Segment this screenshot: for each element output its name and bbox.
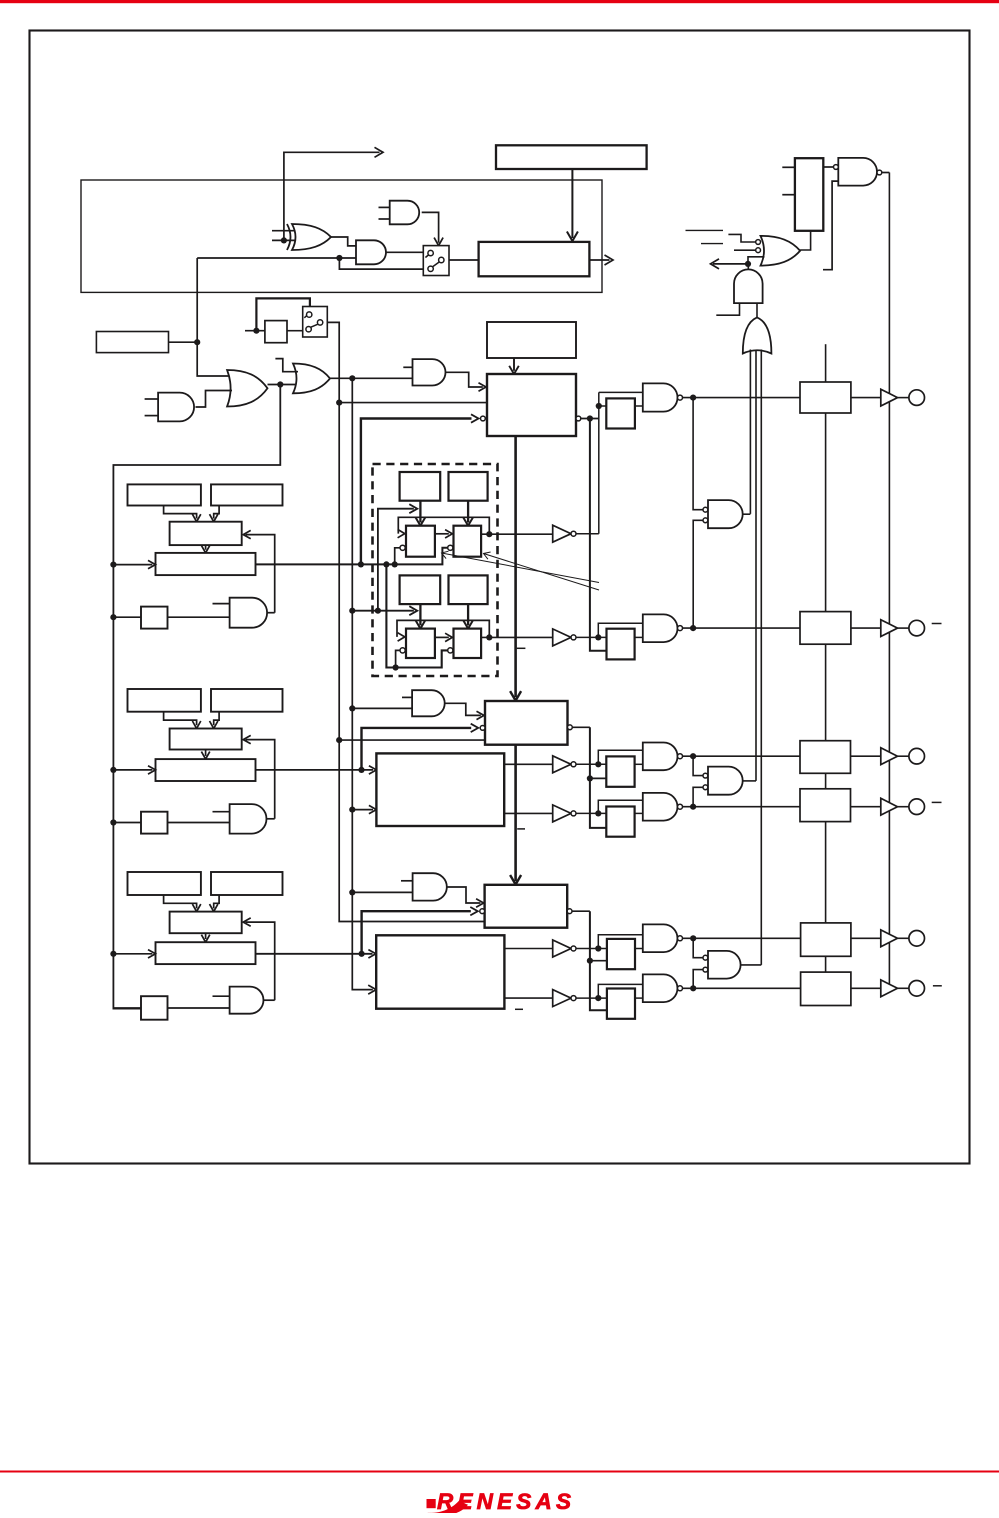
wire: left bus rail [113,385,280,1009]
wire: GA2 input stub [213,811,230,813]
nand gate G4 (top) [838,158,877,186]
wire: and gate up to C3 right input [246,922,275,1000]
nand gate GC3 (rows 5-6, inverted inputs) [708,951,741,979]
wire: flag rail from rows 5-6 [760,350,762,965]
nand gate N4 [643,793,678,821]
counter box T1 [487,374,576,436]
buffer B2 [881,620,898,637]
wire: V3 output [576,763,606,765]
wire: selector S1 output [449,259,479,261]
register box B2 [211,689,283,712]
wire: C3 to D3 [205,933,207,939]
output square R3 [606,756,634,786]
wire: mode register output [169,341,198,343]
wire: clock arrows into FF block [352,610,378,612]
and gate GA2 [230,804,267,834]
and gate GA1 [230,598,268,628]
node: net to square R1 [596,403,602,409]
wire: G9 output to G8 [196,391,233,408]
or gate G10 [293,364,330,394]
register box (top wide) [496,145,647,169]
wire: N3 output row3 [683,755,801,757]
wire: top feedback arrow [284,152,380,240]
wire: GA3 output [263,999,274,1001]
wire: tall box input stubs [782,166,795,168]
overbar tick near chain (1) [517,647,526,649]
wire: Q1 to and gate [168,616,230,618]
control register box (tall) [795,158,823,231]
wire: buffer into counter 1 [513,358,515,371]
wire: GR2 upper output [504,763,553,765]
register box B3 [211,872,283,895]
wire: R5 to N5 [635,948,643,950]
register box C1 [170,522,242,545]
inverter V1 [553,525,571,542]
and gate GB2 [412,690,445,716]
wire: FF1 to FF2 [435,533,449,535]
nand gate N6 [643,974,678,1002]
pin P5 [909,931,925,947]
wire: G9 input stubs [145,398,159,400]
output mode box M6 [801,972,851,1005]
wire: flag rail from rows 1-2 [749,350,751,514]
buffer B4 [881,798,898,815]
wire: rail B to GB3 [352,891,412,893]
bubble: FF1 reset [400,545,405,550]
compare-match box (top) [479,242,590,276]
wire: row1 net vertical [598,392,600,533]
output square R5 [607,939,635,969]
register box C2 [170,729,242,750]
wire: T3 rail down to R5/R6 [590,911,607,1010]
register box E2 [449,472,488,501]
wire: row4 net vertical [598,800,643,813]
wire: left rail into Q1 [113,616,141,618]
wire: N5 output row5 [683,937,801,939]
wire: G5 input 2 [734,249,756,251]
wire: E1 to FF1 [419,501,421,523]
wire: R4 to N4 [635,812,643,814]
wire: net to nand N1 input [599,391,643,393]
wire: and G2 output [386,251,423,253]
output square R2 [607,629,635,660]
inner top sub-block frame [81,180,602,292]
wire: E4 to FF4 [467,604,469,625]
wire: latch L2 input [245,330,265,332]
wire: Q3 to and gate [168,1007,230,1009]
register box A2 [128,689,201,712]
wire: row2 net vertical [598,623,643,637]
latch square Q3 [141,996,168,1020]
or gate G8 [227,370,267,407]
wire: D3 line into general register box [256,953,372,955]
nand gate GC2 (rows 3-4, inverted inputs) [708,767,743,795]
nand gate GC1 (rows 1-2, inverted inputs) [708,500,743,528]
node: clock vertical junction [375,608,381,614]
wire: rail B to GB2 [352,707,412,709]
wire: N4 elbow to GC2 [693,787,703,806]
wire: L2 square to selector [287,330,303,332]
wire: FF4 reset wrap to counter junction [386,564,447,667]
buffer B5 [881,930,898,947]
wire: M4 to buffer [851,806,881,808]
overbar tick near chain (2) [517,828,525,830]
wire: A3 to C3 [164,895,197,908]
wire: N2 output row2 [683,627,801,629]
wire: mode rail vertical [825,344,827,382]
wire: counter line to FF group [255,548,447,565]
flip-flop FF4 [454,629,482,658]
wire: R3 to N3 [635,763,643,765]
wire: B2 to C2 [214,712,219,726]
wire: GB1 input stub [403,366,412,368]
latch square Q1 [141,607,168,629]
wire: V1 output return [576,533,599,535]
bubble: T1 output [576,416,581,421]
overbar tick near chain (3) [515,1008,523,1010]
register box E3 [400,575,441,604]
wire: xor input stubs [272,230,295,232]
pin P6 [909,981,925,997]
pin P6 overbar tick [933,985,942,987]
wire: G3 input stubs [379,206,390,208]
and gate G3 (clock gate) [390,201,419,225]
wire: interrupt stub dashes [686,229,724,231]
register box A3 [128,872,201,895]
output mode box M4 [800,789,851,822]
wire: N1 output row1 [683,397,801,399]
selector switch S2 [303,307,328,338]
register box D1 (buffer) [156,553,256,575]
wire: T1 clear input [361,419,472,565]
output square R4 [606,807,634,837]
wire: R2 to N2 [635,636,643,638]
nand gate N3 [643,743,678,771]
wire: T2 output [572,726,590,728]
or gate G7 (upward, flag collector) [743,317,772,353]
nor gate G5 [761,236,801,266]
bubble: T3 output [567,909,572,914]
latch L2 square [265,321,287,343]
pin P2 [909,620,925,636]
wire: FF3 set loop [397,620,489,637]
wire: G6 output up [747,264,749,270]
nand gate N1 [643,383,678,411]
wire: long select line [197,257,356,259]
wire: FF1 reset to counter line [395,548,400,565]
wire: GC1 output to flag rail [743,513,751,515]
node: latch L2 junction [253,328,259,334]
wire: T3 output [572,910,590,912]
wire: rail B into box lower input [352,809,373,811]
nand gate N2 [643,614,678,642]
wire: V5 output [576,948,607,950]
output mode box M1 [800,382,851,413]
wire: FF3 reset wrap [396,650,400,667]
output square R1 [606,398,635,428]
wire: G5 input 1 [728,234,755,242]
wire: left rail into D3 [113,953,152,955]
comparator box T2 [485,701,568,745]
and gate GB1 [413,359,446,385]
node: rail A to counter 2 [336,737,342,743]
comparator box T3 [485,885,568,928]
footer red rule [0,1471,999,1473]
and gate GA3 [230,987,264,1014]
register box C3 [170,912,242,934]
wire: G3 output to selector [422,212,439,242]
wire: T2 clear input [362,728,472,770]
register buffer box (above counter 1) [487,322,576,358]
selector switch S1 [423,246,449,276]
wire: G10 hook input [275,359,298,372]
wire: B3 to C3 [214,895,219,908]
wire: left rail into D2 [113,769,152,771]
wire: interrupt output arrow (left) [713,263,748,265]
bubble: FF4 reset [448,648,453,653]
output mode box M3 [800,741,851,774]
wire: N6 elbow to GC3 [693,970,703,989]
general register box GR3 [376,935,504,1008]
wire: left rail into Q2 [113,822,141,824]
wire: G5 input 3 [748,257,765,264]
output mode box M2 [800,612,851,645]
wire: G8 output [268,384,297,386]
and gate GB3 [413,873,447,900]
wire: N5 elbow to GC3 [693,938,703,957]
wire: row5 net vertical [598,935,643,949]
wire: select vertical to or gate [197,258,231,376]
wire: rail A into counter 1 [339,402,487,404]
bubble: FF3 reset [400,648,405,653]
register box E4 [449,575,488,604]
wire: clock rail B [352,378,373,989]
wire: left rail into Q3 [113,1007,141,1009]
node: select line junction [336,255,342,261]
wire: N3 elbow to GC2 [693,756,703,775]
wire: GC3 output to flag rail [741,964,762,966]
inverter V2 [553,629,571,646]
wire: T3 clear input [362,911,471,954]
pin P1 [909,390,925,406]
wire: tall box to G4 bubble [823,166,833,168]
node: left rail junctions [110,562,116,568]
wire: C1 to D1 [205,545,207,550]
wire: M6 to buffer [851,987,881,989]
wire: G10 output (rail B source) [330,377,413,379]
wire: G5 output to tall box [800,231,811,250]
wire: flag rail from rows 3-4 [755,351,757,781]
node: rail B top junction [349,375,355,381]
wire: G4 output to right rail [882,172,890,174]
wire: G6 right input [756,303,758,317]
wire: xor output to and gate [331,237,357,246]
and gate G2 [356,240,386,264]
top red header bar [0,0,999,3]
inverter V6 [553,990,571,1007]
wire: E3 to FF3 [419,604,421,625]
wire: C2 to D2 [205,750,207,756]
inverter V3 [553,756,571,773]
wire: FF3 to FF4 [435,636,449,638]
wire: branch to selector lower input [339,258,423,269]
wire: compare-match output arrow [589,259,609,261]
output square R6 [607,989,635,1019]
wire: FF2 output row1 [481,533,553,535]
wire: GA3 input stub [213,995,230,997]
wire: buffer B1 to pin [898,397,909,399]
node: clock source junction [277,381,283,387]
wire: M5 to buffer [851,937,881,939]
flip-flop FF3 [406,629,435,658]
pin P3 [909,748,925,764]
wire: GC2 output to flag rail [743,780,756,782]
wire: E2 to FF2 [467,501,469,523]
node: rail A to counter 1 [336,400,342,406]
node: wrap junction [393,664,399,670]
wire: G6 left input [716,303,739,315]
wire: A2 to C2 [164,712,197,726]
leader line 2 [484,554,600,591]
wire: T1 rail down to R2 [590,419,607,651]
general register box GR2 [376,753,504,826]
register box B1 [211,484,283,505]
wire: GB3 input stub [401,880,413,882]
nand gate N5 [643,924,678,952]
wire: GR3 upper output [504,948,552,950]
wire: B1 to C1 [214,506,219,519]
register box D3 (buffer) [156,942,256,964]
wire: selector S2 output rail (rail A) [327,322,484,921]
node: counter line junctions [358,561,364,567]
dashed block frame [373,464,498,676]
wire: V6 output [576,997,607,999]
wire: GR2 lower output [504,812,553,814]
wire: FF4 output row2 [481,636,553,638]
wire: rail A into counter 2 [339,739,485,741]
wire: and gate up to C1 right input [246,535,275,613]
wire: N6 output row6 [683,987,801,989]
wire: V4 output [576,812,606,814]
wire: R1 to N1 [635,405,643,407]
and gate G9 [158,393,194,422]
inverter V4 [553,805,571,822]
wire: GR3 lower output [504,997,552,999]
buffer B1 [881,389,898,406]
leader line 1 [442,553,600,583]
bubble: FF2 reset [448,545,453,550]
wire: FF1 set loop [398,517,489,534]
latch L2 hook wire [256,298,310,330]
output mode box M5 [801,923,851,956]
flip-flop FF2 [454,526,482,557]
wire: G4 lower input stub [823,181,838,270]
wire: left rail into D1 [113,564,152,566]
wire: GB2 output into T2 [445,703,481,715]
xor gate G1 [292,224,331,250]
register box A1 [128,484,201,505]
wire: right vertical rail [888,173,890,989]
bubble: T2 output [568,725,573,730]
pin P4 overbar tick [932,801,942,803]
node: rail B junctions [349,608,355,614]
counter chain vertical [514,436,517,697]
wire: and gate up to C2 right input [246,740,275,819]
flip-flop FF1 [406,526,435,557]
wire: GA1 input stub [213,603,230,605]
wire: M1 to buffer [851,397,881,399]
wire: R6 to N6 [635,997,643,999]
wire: N1 to GC1 elbow [693,398,703,510]
wire: GB3 output into T3 [447,887,481,903]
wire: register to compare-match box [571,169,573,238]
and gate G6 (upward) [734,269,763,303]
wire: Q2 to and gate [168,822,230,824]
pin P4 [909,799,925,815]
wire: N4 output row4 [683,806,801,808]
wire: D2 line into general register box [256,769,373,771]
wire: GA1 output [267,612,275,614]
register box E1 [400,472,441,501]
mode register box (left) [96,332,168,353]
buffer B3 [881,748,898,765]
outer figure frame [30,31,970,1164]
wire: V2 output [576,636,607,638]
wire: T2 rail down to R3/R4 [590,727,606,828]
wire: row3 net vertical [598,750,643,764]
wire: M3 to buffer [851,755,881,757]
wire: M2 to buffer [851,627,881,629]
wire: GB1 output into T1 [445,372,482,387]
wire: A1 to C1 [164,506,197,519]
node: mode line junction [194,339,200,345]
buffer B6 [881,980,898,997]
node: interrupt junction [745,261,751,267]
latch square Q2 [141,812,168,834]
register box D2 (buffer) [156,759,256,781]
wire: GC1 lower elbow to row2 [693,520,703,628]
wire: GB2 input stub [402,696,412,698]
node: xor lower input junction [281,237,287,243]
wire: GA2 output [266,818,274,820]
wire: row6 net vertical [598,984,643,998]
wire: T1 output [581,418,599,420]
inverter V5 [553,940,571,957]
pin P2 overbar tick [932,623,942,625]
Renesas logo [427,1489,576,1516]
